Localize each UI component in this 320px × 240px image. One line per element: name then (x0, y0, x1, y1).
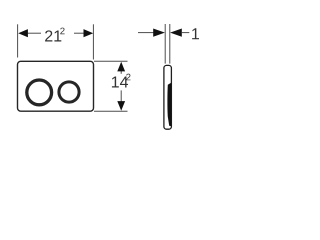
plate outline (front view) (18, 61, 94, 111)
dimension line width right segment (74, 32, 84, 34)
plate profile outline (side view) (164, 65, 172, 129)
arrowhead height up (117, 62, 125, 72)
arrowhead width right (84, 29, 94, 37)
dimension line height upper segment (120, 70, 122, 74)
label 1 (192, 28, 199, 39)
arrowhead thickness inward right (153, 29, 165, 37)
dimension line width left segment (28, 32, 41, 34)
arrowhead width left (18, 29, 28, 37)
arrowhead thickness inward left (170, 29, 182, 37)
button large (27, 80, 52, 105)
dimension line height lower segment (120, 90, 122, 103)
extension line right (thickness dim) (169, 24, 171, 64)
extension line top (height dim) (94, 60, 128, 62)
extension line left (width dim) (17, 24, 19, 57)
button small (59, 82, 79, 102)
plate profile shading (167, 83, 171, 127)
extension line left (thickness dim) (164, 24, 166, 64)
dimension line thickness right segment (181, 32, 189, 34)
extension line right (width dim) (92, 24, 94, 59)
label 21 squared (45, 30, 61, 41)
arrowhead height down (117, 101, 125, 111)
dimension line thickness left segment (138, 32, 154, 34)
extension line bottom (height dim) (94, 110, 128, 112)
label 14 squared (112, 76, 128, 87)
